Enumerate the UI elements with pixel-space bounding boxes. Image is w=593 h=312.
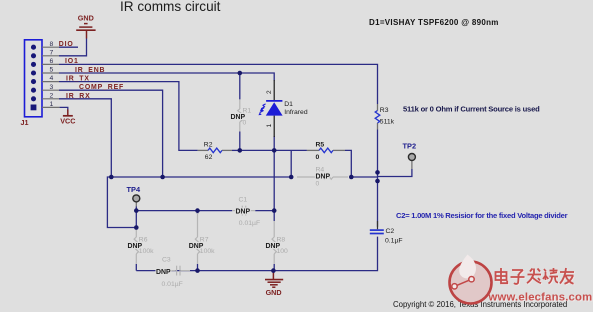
node COMP_REF [160, 175, 165, 180]
node D1 bottom [272, 148, 277, 153]
svg-text:www.elecfans.com: www.elecfans.com [488, 291, 593, 303]
connector J1 pins [31, 45, 37, 111]
svg-text:2: 2 [266, 90, 273, 94]
svg-text:0.01µF: 0.01µF [239, 220, 260, 227]
wire R1 vertical bottom [239, 132, 241, 151]
resistor R1 DNP (grayed, vertical) [238, 99, 242, 131]
node C1 right / R8 top [272, 208, 277, 213]
wire R8 top stub [273, 211, 275, 221]
wire R3 bottom to crossing [377, 130, 379, 182]
resistor R8 DNP (grayed) [272, 221, 276, 264]
svg-text:C2= 1.00M 1% Resisior for the: C2= 1.00M 1% Resisior for the fixed Volt… [396, 211, 568, 220]
svg-text:C1: C1 [239, 196, 248, 203]
wire IR_RX pin2 down to rail [59, 99, 111, 177]
test point TP4 [135, 202, 137, 206]
svg-text:DNP: DNP [236, 208, 251, 215]
svg-text:IR_TX: IR_TX [66, 76, 90, 83]
ground top (pin7) [76, 24, 95, 39]
svg-text:IR comms circuit: IR comms circuit [120, 0, 221, 14]
svg-text:2: 2 [50, 92, 54, 99]
wire middle rail TP4 to C1 [136, 210, 232, 212]
wire R5 right lead to riser [345, 150, 351, 177]
svg-text:TP4: TP4 [127, 185, 141, 194]
watermark logo circle [450, 255, 492, 304]
node R5 left [289, 175, 294, 180]
resistor R2 [198, 148, 232, 153]
svg-text:6: 6 [50, 58, 54, 65]
wire IR_ENB pin5 to D1 top [59, 73, 274, 81]
svg-text:0: 0 [316, 181, 320, 188]
svg-text:0.01µF: 0.01µF [162, 281, 183, 288]
capacitor C1 DNP (grayed) [232, 206, 255, 216]
LED D1 [258, 80, 282, 137]
svg-text:R3: R3 [380, 107, 389, 114]
wire R6 bottom stub [135, 264, 137, 271]
svg-text:C3: C3 [162, 257, 171, 264]
wire IO1 pin6 long to R3 [59, 64, 378, 104]
svg-text:62: 62 [205, 154, 213, 161]
wire COMP_REF pin3 down to rail [59, 90, 163, 177]
node crossing lower [375, 179, 380, 184]
svg-text:8: 8 [50, 41, 54, 48]
watermark chinese char dian [496, 268, 509, 284]
svg-text:R4: R4 [316, 166, 325, 173]
svg-text:IO1: IO1 [65, 58, 79, 65]
svg-text:Infrared: Infrared [284, 109, 308, 116]
svg-text:GND: GND [78, 13, 94, 22]
wire pin1 to VCC [60, 107, 68, 110]
wire D1 bottom to rail [273, 136, 275, 150]
svg-text:IR_RX: IR_RX [66, 93, 91, 100]
connector pin stubs [42, 47, 60, 107]
node gnd rail [271, 268, 276, 273]
pin numbers [50, 41, 54, 108]
svg-text:TP2: TP2 [403, 142, 417, 151]
node crossing upper [375, 170, 380, 175]
node IR_ENB/R1 [238, 71, 243, 76]
watermark chinese char zi [511, 270, 526, 285]
svg-text:COMP_REF: COMP_REF [79, 84, 124, 91]
wire crossing down to C2 [377, 181, 379, 227]
capacitor C3 DNP (grayed) [166, 266, 190, 276]
wire lower rail right [351, 176, 377, 178]
node R7 top [195, 208, 200, 213]
svg-text:1: 1 [266, 124, 273, 128]
resistor R4 DNP (grayed, on lower rail) [297, 175, 348, 180]
svg-text:7: 7 [50, 49, 54, 56]
wire DIO pin8 [59, 46, 78, 48]
connector J1 body [25, 40, 43, 117]
wire R7 top stub [197, 211, 199, 214]
svg-text:511k or 0 Ohm if Current Sour: 511k or 0 Ohm if Current Source is used [403, 105, 540, 114]
watermark chinese char you [560, 268, 575, 285]
svg-text:1: 1 [50, 101, 54, 108]
svg-text:GND: GND [266, 288, 282, 297]
wire pin7 to gnd riser [59, 39, 87, 56]
resistor R7 DNP (grayed) [195, 213, 199, 264]
wire TP4 stem lower [135, 207, 137, 211]
wire C2 bottom to gnd rail [136, 237, 377, 271]
svg-text:3: 3 [50, 84, 54, 91]
power VCC (pin1) [63, 110, 73, 116]
node R7 bottom [195, 268, 200, 273]
wire R5 left riser [290, 150, 292, 177]
wire IR_TX pin4 down to R2 [59, 82, 198, 151]
svg-text:511k: 511k [380, 118, 395, 125]
svg-text:J1: J1 [21, 118, 29, 127]
svg-text:VCC: VCC [60, 117, 75, 126]
svg-text:4: 4 [50, 75, 54, 82]
resistor R6 DNP (grayed) [134, 228, 138, 265]
svg-text:DIO: DIO [59, 41, 74, 48]
wire lower rail left [107, 177, 291, 228]
svg-text:C2: C2 [386, 228, 395, 235]
svg-text:0: 0 [243, 120, 247, 127]
svg-text:D1=VISHAY TSPF6200 @ 890nm: D1=VISHAY TSPF6200 @ 890nm [369, 18, 499, 27]
svg-text:DNP: DNP [316, 174, 331, 181]
test point TP2 [411, 161, 413, 169]
wire R7 bottom stub [197, 264, 199, 271]
wire C1 right to D1 rail [255, 210, 274, 212]
wire R8 bottom stub [273, 264, 275, 271]
capacitor C2 [370, 230, 384, 233]
resistor R3 [375, 104, 380, 130]
svg-text:100k: 100k [200, 248, 215, 255]
svg-text:R5: R5 [316, 141, 325, 148]
resistor R5 [307, 148, 345, 153]
svg-text:0.1µF: 0.1µF [385, 238, 403, 245]
wire R1 node to D1 node to R5 left lead [240, 149, 307, 151]
node TP4 bracket [134, 225, 139, 230]
svg-text:0: 0 [316, 154, 320, 161]
node R5 right [349, 175, 354, 180]
svg-text:D1: D1 [284, 101, 293, 108]
svg-text:IR_ENB: IR_ENB [75, 67, 105, 74]
node R2/R1/D1 rail [238, 148, 243, 153]
node IR_RX [109, 175, 114, 180]
watermark chinese char fa [527, 269, 542, 285]
wire R2 right to R1 node [232, 149, 240, 151]
svg-text:100k: 100k [139, 248, 154, 255]
svg-text:100: 100 [277, 248, 289, 255]
ground bottom [265, 271, 283, 288]
wire R1 vertical top [239, 73, 241, 99]
wire TP2 branch [378, 169, 412, 177]
node TP4 mid rail [134, 208, 139, 213]
wires navy [59, 39, 412, 271]
svg-text:5: 5 [50, 67, 54, 74]
wire TP4 node down to R6 [135, 211, 137, 230]
watermark chinese char shao [543, 268, 559, 284]
wire D1 node down to C1 node [273, 150, 275, 210]
svg-text:DNP: DNP [156, 269, 171, 276]
svg-text:R2: R2 [204, 141, 213, 148]
